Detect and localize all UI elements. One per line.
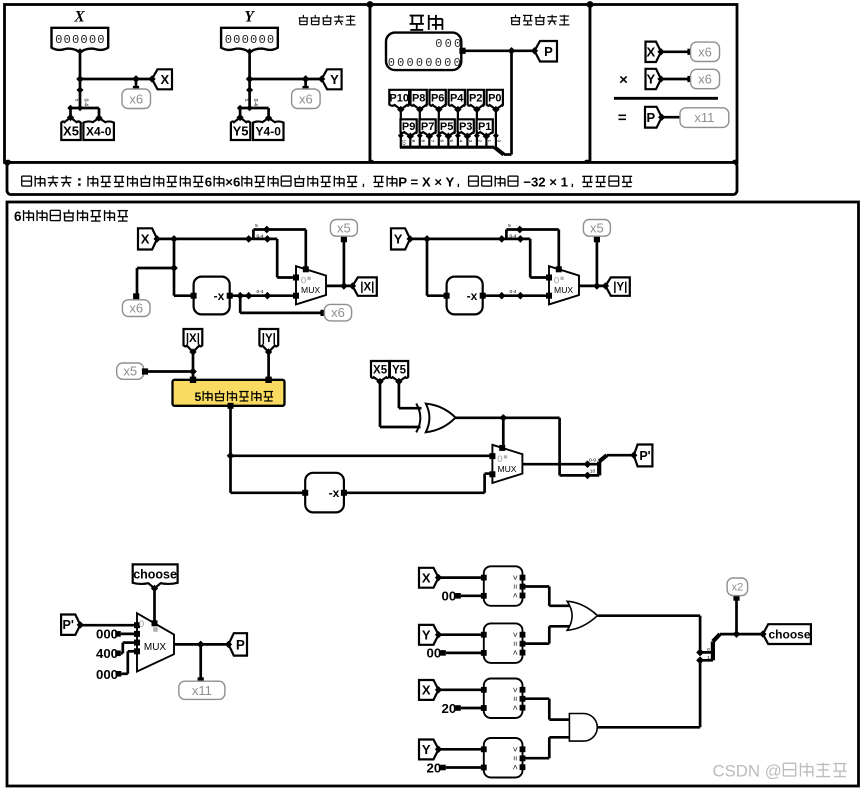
- tunnel X4-0: [83, 114, 114, 140]
- tunnel Y: [391, 228, 414, 249]
- leg node: [464, 133, 470, 139]
- junction: [498, 292, 506, 300]
- junction: [508, 47, 516, 55]
- svg-text:P2: P2: [469, 93, 482, 105]
- splitter trunk: [248, 79, 251, 108]
- wire to negator: [427, 239, 447, 296]
- svg-text:=: =: [510, 641, 520, 646]
- wire negator out: [483, 294, 549, 297]
- svg-text:X5: X5: [63, 124, 79, 139]
- stem bit 2: [476, 109, 478, 136]
- comparator: [481, 679, 525, 719]
- tunnel P10: [389, 90, 409, 113]
- tunnel Y5: [231, 114, 250, 140]
- constant 20: [427, 760, 446, 775]
- tunnel X: [419, 568, 442, 588]
- svg-text:X: X: [141, 232, 150, 247]
- junction: [593, 282, 601, 290]
- wire: [661, 50, 688, 53]
- junction: [245, 235, 253, 243]
- tunnel X: [148, 69, 172, 89]
- svg-text:00: 00: [442, 589, 457, 604]
- svg-text:P5: P5: [440, 121, 453, 133]
- wire P' to mux: [80, 624, 137, 627]
- wire xor out: [456, 416, 560, 419]
- stem bit 8: [419, 109, 421, 136]
- svg-text:Y5: Y5: [392, 365, 407, 377]
- pad: [681, 114, 687, 120]
- splitter node: [76, 86, 83, 93]
- wire mux out: [326, 285, 353, 288]
- tunnel X: [138, 228, 161, 249]
- splitter jog: [506, 230, 558, 239]
- junction: [245, 292, 253, 300]
- leg node: [426, 133, 432, 139]
- wire from pin Y: [248, 50, 251, 79]
- svg-text:X4-0: X4-0: [86, 124, 112, 138]
- wire or out: [598, 616, 701, 653]
- wire comp4 = out: [523, 737, 570, 758]
- tunnel P1: [477, 119, 493, 140]
- svg-text:5: 5: [448, 140, 454, 143]
- svg-text:x6: x6: [698, 72, 712, 87]
- wire to P': [607, 454, 634, 457]
- tunnel P6: [430, 90, 446, 113]
- wire and out: [597, 660, 700, 727]
- svg-text:5: 5: [195, 390, 202, 404]
- splitter spine (11-bit): [400, 146, 495, 149]
- svg-text:10: 10: [590, 469, 596, 475]
- fraction bar: [614, 97, 718, 100]
- svg-text:|X|: |X|: [360, 282, 374, 294]
- svg-text:0-9: 0-9: [589, 458, 596, 464]
- leg node: [483, 133, 489, 139]
- wire to probe x5: [343, 241, 346, 286]
- tunnel |Y|: [602, 277, 630, 295]
- tunnel |Y|: [259, 329, 278, 356]
- svg-text:<: <: [510, 705, 520, 710]
- label 乘积: [410, 15, 443, 30]
- label =: [618, 110, 627, 127]
- constant 00: [427, 646, 446, 661]
- wire negator out to mux in1: [344, 474, 493, 493]
- frame corner dots: [5, 1, 739, 166]
- svg-text:Y: Y: [422, 628, 431, 643]
- stem bit 10: [400, 109, 402, 136]
- comparator: [481, 566, 525, 606]
- svg-text:000: 000: [435, 37, 463, 51]
- wire |X| down: [192, 352, 195, 380]
- tunnel choose: [759, 624, 811, 644]
- svg-text:Y: Y: [646, 72, 655, 87]
- svg-text:-x: -x: [467, 289, 478, 303]
- pad: [733, 595, 739, 601]
- wire to probe x2: [735, 599, 738, 635]
- leg bit label: [458, 140, 464, 143]
- svg-text:choose: choose: [133, 568, 177, 582]
- svg-text:Y: Y: [244, 9, 255, 26]
- svg-text:P4: P4: [450, 93, 464, 105]
- svg-text:MUX: MUX: [554, 285, 573, 295]
- wire mux out to P: [174, 643, 229, 646]
- junction: [517, 292, 525, 300]
- svg-text:P3: P3: [459, 121, 472, 133]
- svg-text:P: P: [646, 110, 655, 125]
- wire to mux in0: [277, 239, 296, 278]
- wire X5 to xor: [380, 382, 421, 427]
- junction: [76, 75, 84, 83]
- tunnel P': [630, 445, 652, 467]
- probe x6: [122, 89, 151, 109]
- junction: [170, 264, 178, 272]
- svg-text:00000000: 00000000: [388, 56, 463, 70]
- wire Y main: [410, 238, 530, 241]
- wire const2: [121, 643, 137, 654]
- junction: [516, 226, 524, 234]
- svg-text:7: 7: [429, 140, 435, 143]
- splitter leg node: [77, 105, 84, 112]
- constant 000: [96, 667, 121, 682]
- probe pad: [303, 86, 309, 92]
- svg-text:Y: Y: [422, 742, 431, 757]
- constant 400: [96, 646, 121, 661]
- svg-text:x6: x6: [129, 301, 143, 316]
- svg-text:0-4: 0-4: [256, 233, 263, 239]
- frame: input pin area box: [5, 5, 371, 163]
- wire |Y| down: [267, 352, 270, 380]
- tunnel Y: [419, 625, 442, 645]
- probe x6: [324, 304, 351, 321]
- splitter leg bit 7: [428, 135, 430, 147]
- splitter bit labels: [74, 99, 89, 107]
- svg-text:P = X × Y: P = X × Y: [398, 175, 454, 190]
- probe x6: [122, 300, 150, 317]
- svg-text:P9: P9: [402, 121, 415, 133]
- svg-text:MUX: MUX: [301, 285, 320, 295]
- junction: [236, 292, 244, 300]
- svg-text:5: 5: [508, 223, 511, 229]
- junction: [302, 75, 310, 83]
- junction: [733, 630, 741, 638]
- wire to probe: [240, 296, 321, 313]
- splitter bit labels: [255, 223, 264, 239]
- svg-text:8: 8: [420, 140, 426, 143]
- frame: result display box: [590, 5, 737, 163]
- svg-text:CSDN @: CSDN @: [713, 762, 782, 781]
- svg-text:x5: x5: [337, 220, 351, 235]
- svg-text:00: 00: [427, 646, 442, 661]
- leg bit label: [486, 140, 492, 143]
- splitter leg bit 9: [409, 135, 411, 147]
- probe x5: [330, 220, 357, 237]
- leg bit label: [439, 140, 445, 143]
- svg-text:000000: 000000: [55, 33, 106, 47]
- svg-text:P6: P6: [431, 93, 444, 105]
- junction: [132, 75, 140, 83]
- svg-text:000000: 000000: [225, 33, 276, 47]
- tunnel P: [225, 633, 247, 655]
- tunnel Y: [318, 69, 342, 89]
- splitter leg bit 2: [476, 135, 478, 147]
- tunnel P3: [458, 119, 474, 140]
- svg-text:5: 5: [74, 99, 80, 102]
- svg-text:9: 9: [410, 140, 416, 143]
- wire: [661, 78, 688, 81]
- wire product to mux in0: [231, 454, 493, 457]
- svg-text:Y5: Y5: [233, 124, 249, 139]
- wire left branch: [137, 239, 194, 296]
- wire A: [439, 748, 484, 751]
- wire B: [461, 707, 484, 710]
- label X: [73, 9, 85, 26]
- svg-text:0-4: 0-4: [252, 99, 258, 107]
- stem bit 0: [495, 109, 497, 136]
- svg-text:>: >: [510, 687, 520, 692]
- svg-text:x5: x5: [590, 220, 604, 235]
- probe x5: [117, 363, 144, 379]
- leg node: [398, 133, 404, 139]
- negator -x (X): [191, 277, 233, 315]
- splitter leg bit 8: [419, 135, 421, 147]
- pad: [341, 236, 347, 242]
- svg-text:>: >: [510, 747, 520, 752]
- svg-text:P10: P10: [389, 93, 409, 105]
- stem bit 4: [457, 109, 459, 136]
- junction: [246, 75, 254, 83]
- constant 000: [96, 627, 121, 642]
- svg-text:>: >: [510, 575, 520, 580]
- svg-text:MUX: MUX: [497, 464, 516, 474]
- wire sign bit: [560, 418, 600, 476]
- svg-text:5: 5: [243, 99, 249, 102]
- tunnel P': [61, 615, 84, 635]
- leg node: [455, 133, 461, 139]
- junction: [227, 452, 235, 460]
- splitter trunk: [79, 79, 82, 108]
- probe stub: [135, 79, 138, 89]
- svg-text:Y: Y: [394, 232, 403, 247]
- junction: [340, 282, 348, 290]
- svg-text:5: 5: [255, 223, 258, 229]
- label 输入引脚区: [299, 15, 356, 25]
- tunnel X: [646, 42, 665, 62]
- svg-text:-x: -x: [329, 486, 340, 500]
- splitter bit labels: [243, 99, 258, 107]
- wire to mux select: [502, 418, 505, 450]
- leg bit label: [477, 140, 483, 143]
- function note box: [7, 163, 737, 195]
- svg-text:=: =: [510, 584, 520, 589]
- pad: [687, 76, 693, 82]
- wire comp3 = out: [523, 699, 570, 720]
- junction: [499, 414, 507, 422]
- svg-text:4: 4: [458, 140, 464, 143]
- svg-text:P: P: [544, 44, 553, 59]
- svg-text:P': P': [63, 618, 74, 632]
- pad: [142, 368, 148, 374]
- wire probe to |X|: [148, 370, 193, 373]
- svg-text:>: >: [510, 632, 520, 637]
- svg-text:-x: -x: [214, 289, 225, 303]
- label 输出引脚区: [511, 15, 570, 25]
- tunnel Y5: [390, 361, 408, 385]
- frame: output pin area box: [370, 5, 590, 163]
- junction: [197, 641, 205, 649]
- tunnel X5: [371, 361, 389, 385]
- pad: [320, 310, 326, 316]
- svg-text:000: 000: [96, 667, 118, 682]
- probe x11: [680, 108, 729, 128]
- output pin pad: [459, 48, 465, 54]
- wire Y5 to xor: [399, 382, 422, 409]
- pad: [687, 49, 693, 55]
- probe x5: [583, 220, 610, 237]
- tunnel Y4-0: [253, 114, 284, 140]
- svg-text:P1: P1: [478, 121, 491, 133]
- svg-text:Y: Y: [330, 72, 339, 87]
- svg-text:x6: x6: [698, 44, 712, 59]
- probe x6: [292, 89, 321, 109]
- wire to probe x11: [199, 644, 202, 679]
- svg-text:<: <: [510, 650, 520, 655]
- tunnel P4: [449, 90, 465, 113]
- leg bit label: [401, 140, 407, 146]
- splitter spine: [71, 108, 100, 119]
- wire to tunnel X: [80, 78, 152, 81]
- label 6位补码阵列乘法器: [14, 209, 128, 224]
- svg-text:1: 1: [486, 140, 492, 143]
- junction: [264, 292, 272, 300]
- tunnel |X|: [184, 329, 203, 356]
- wire mux out: [579, 285, 606, 288]
- tunnel P0: [487, 90, 503, 113]
- junction: [264, 235, 272, 243]
- watermark CSDN: [713, 762, 847, 781]
- tunnel P5: [439, 119, 455, 140]
- wire comp1 = out: [523, 587, 571, 606]
- comparator: [481, 623, 525, 663]
- svg-text:×6: ×6: [225, 175, 240, 190]
- svg-text:=: =: [510, 756, 520, 761]
- mux MUX (Y): [546, 266, 579, 304]
- wire choose to select: [153, 588, 156, 623]
- tunnel P9: [401, 119, 417, 140]
- splitter leg bit 0: [495, 135, 497, 147]
- wire select: [304, 230, 307, 271]
- pad: [594, 236, 600, 242]
- svg-text:6: 6: [439, 140, 445, 143]
- splitter leg node: [237, 105, 244, 112]
- constant 00: [442, 589, 461, 604]
- svg-text:20: 20: [427, 760, 442, 775]
- splitter bit label: [256, 289, 263, 295]
- wire mux out: [522, 463, 599, 466]
- wire B: [446, 652, 484, 655]
- svg-text:000: 000: [96, 627, 118, 642]
- pad: [133, 293, 139, 299]
- splitter leg bit 3: [466, 135, 468, 147]
- wire A: [439, 576, 484, 579]
- wire down to splitter: [504, 51, 512, 155]
- wire A: [439, 633, 484, 636]
- wire X main: [157, 238, 277, 241]
- svg-text:x2: x2: [732, 582, 744, 594]
- splitter diagonal: [494, 147, 503, 154]
- tunnel P2: [468, 90, 484, 113]
- svg-text:0: 0: [139, 619, 144, 630]
- tunnel P8: [411, 90, 427, 113]
- tunnel choose: [133, 564, 178, 592]
- label ×: [619, 72, 628, 89]
- junction: [584, 460, 592, 468]
- svg-text:0-4: 0-4: [256, 289, 263, 295]
- svg-text:0-4: 0-4: [509, 289, 516, 295]
- junction: [77, 48, 84, 55]
- svg-text:P': P': [639, 449, 650, 463]
- svg-text:10: 10: [401, 140, 407, 146]
- splitter node: [246, 86, 253, 93]
- tunnel P: [645, 107, 665, 128]
- function note text: [22, 175, 632, 190]
- svg-text:X: X: [646, 45, 655, 60]
- tunnel X: [419, 680, 442, 700]
- splitter leg node: [246, 105, 253, 112]
- junction: [189, 368, 197, 376]
- svg-text:×: ×: [619, 72, 628, 89]
- splitter leg bit 4: [457, 135, 459, 147]
- probe x6: [691, 42, 720, 61]
- probe x2: [727, 578, 748, 596]
- main circuit box: [7, 202, 859, 786]
- tunnel |X|: [349, 277, 377, 295]
- leg node: [445, 133, 451, 139]
- leg bit label: [429, 140, 435, 143]
- leg bit label: [410, 140, 416, 143]
- svg-text:0-4: 0-4: [83, 99, 89, 107]
- svg-text:x11: x11: [694, 110, 714, 125]
- mux MUX (4-input): [134, 613, 174, 671]
- output pin P (11-bit display): [386, 33, 463, 71]
- svg-text:x6: x6: [299, 91, 313, 106]
- wire negator out: [230, 294, 296, 297]
- tunnel P7: [420, 119, 436, 140]
- mux MUX (P): [489, 445, 522, 483]
- svg-text:6: 6: [205, 175, 212, 190]
- or gate: [567, 601, 597, 630]
- svg-text:X: X: [422, 570, 431, 585]
- combine splitter: [589, 455, 607, 475]
- wire comp2 = out: [523, 626, 571, 643]
- splitter leg node: [67, 105, 74, 112]
- svg-text:x6: x6: [331, 305, 345, 320]
- splitter leg bit 10: [400, 135, 402, 147]
- svg-text:=: =: [510, 696, 520, 701]
- wire to mux in0: [530, 239, 549, 278]
- wire select: [557, 230, 560, 271]
- svg-text:X: X: [422, 683, 431, 698]
- leg bit label: [420, 140, 426, 143]
- junction: [423, 235, 431, 243]
- wire from pin X: [79, 50, 82, 79]
- svg-text:x11: x11: [192, 683, 212, 698]
- leg bit label: [467, 140, 473, 143]
- wire A: [439, 688, 484, 691]
- svg-text:X: X: [73, 9, 85, 26]
- svg-text:0: 0: [707, 647, 710, 653]
- svg-text:<: <: [510, 765, 520, 770]
- svg-text:X5: X5: [373, 365, 388, 377]
- svg-text:6: 6: [14, 209, 22, 224]
